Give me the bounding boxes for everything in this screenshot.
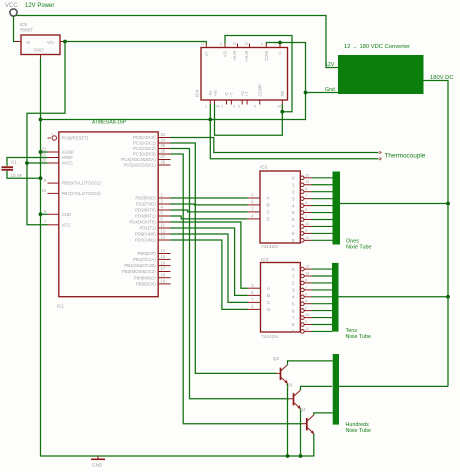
svg-text:PC5(ADC5/SCL): PC5(ADC5/SCL) bbox=[123, 163, 156, 168]
node 180V tens tap bbox=[446, 295, 450, 299]
svg-text:11: 11 bbox=[305, 326, 309, 331]
svg-text:Nixie Tube: Nixie Tube bbox=[346, 244, 371, 250]
wire 5V: VO down-left to AVCC and VCC pin7 bbox=[27, 42, 65, 225]
label 12V Power bbox=[25, 3, 54, 9]
wire VCC down to IC5 VI bbox=[14, 16, 16, 42]
svg-text:3: 3 bbox=[292, 288, 295, 294]
svg-text:2: 2 bbox=[305, 305, 307, 310]
wire C1 bottom to GND bbox=[7, 171, 41, 178]
node GND pin8 junction bbox=[39, 212, 43, 216]
label Thermocouple bbox=[385, 153, 426, 160]
svg-text:74141N: 74141N bbox=[261, 244, 278, 250]
wire GND rail to converter Gnd bbox=[41, 93, 306, 120]
svg-text:PB7(XTAL2/TOSC2): PB7(XTAL2/TOSC2) bbox=[62, 191, 102, 196]
wire Q3 collector to hundreds connector bbox=[301, 386, 333, 390]
svg-text:IC1: IC1 bbox=[57, 304, 65, 310]
node 180V ones tap bbox=[446, 202, 450, 206]
svg-text:7805T: 7805T bbox=[20, 28, 34, 34]
svg-text:28: 28 bbox=[161, 160, 166, 165]
svg-text:23: 23 bbox=[161, 132, 166, 137]
svg-text:-T: -T bbox=[229, 92, 234, 96]
node V- tap bbox=[278, 41, 282, 45]
svg-text:7: 7 bbox=[305, 193, 307, 198]
svg-text:9: 9 bbox=[292, 329, 295, 335]
svg-text:4: 4 bbox=[292, 203, 295, 209]
capacitor C1 bbox=[2, 160, 23, 178]
svg-text:18: 18 bbox=[161, 272, 166, 277]
svg-text:FB: FB bbox=[280, 91, 285, 97]
svg-text:D: D bbox=[267, 307, 271, 313]
svg-text:GND: GND bbox=[34, 48, 45, 53]
wire 5V: VO to IC4 V+ bbox=[65, 42, 206, 44]
svg-text:3: 3 bbox=[305, 298, 307, 303]
svg-text:+ALM: +ALM bbox=[244, 50, 249, 62]
wire FB to +IN bbox=[215, 104, 283, 135]
svg-text:0: 0 bbox=[292, 176, 295, 182]
svg-text:27: 27 bbox=[161, 154, 166, 159]
svg-text:6: 6 bbox=[305, 186, 307, 191]
wire V- up to gnd bbox=[279, 43, 281, 44]
node converter Gnd junction bbox=[304, 91, 308, 95]
svg-text:9: 9 bbox=[292, 238, 295, 244]
wire Q4 collector to hundreds connector bbox=[314, 413, 333, 415]
wire IC4 VO to FB loop bbox=[225, 36, 292, 112]
svg-text:PB5(SCK): PB5(SCK) bbox=[136, 282, 156, 287]
svg-text:19: 19 bbox=[161, 279, 166, 284]
wire PC3 to Q4 base bbox=[171, 154, 303, 424]
svg-text:PB2(SS&OC1B): PB2(SS&OC1B) bbox=[124, 263, 156, 268]
svg-text:PD4(XCK/T0): PD4(XCK/T0) bbox=[129, 220, 156, 225]
wire Q2 emitter to ground bus bbox=[287, 383, 289, 456]
wire PD1 to IC2 B bbox=[171, 203, 248, 206]
svg-text:17: 17 bbox=[161, 266, 166, 271]
svg-text:13: 13 bbox=[232, 42, 236, 46]
svg-text:IC2: IC2 bbox=[260, 165, 268, 171]
svg-text:C: C bbox=[267, 300, 271, 306]
svg-text:PC4(ADC4&SDA): PC4(ADC4&SDA) bbox=[121, 157, 156, 162]
svg-text:PD3(INT1): PD3(INT1) bbox=[135, 214, 156, 219]
svg-text:11: 11 bbox=[161, 223, 166, 228]
svg-text:Q2: Q2 bbox=[273, 356, 280, 361]
svg-text:11: 11 bbox=[305, 235, 309, 240]
svg-text:8: 8 bbox=[292, 322, 295, 328]
svg-text:7: 7 bbox=[305, 284, 307, 289]
svg-text:PD2(INT0): PD2(INT0) bbox=[135, 208, 156, 213]
op-amp U IC4 AD595 thermocouple amplifier bbox=[195, 42, 288, 109]
svg-text:VO: VO bbox=[47, 40, 54, 45]
svg-text:15: 15 bbox=[305, 172, 309, 177]
node AVCC tap bbox=[25, 161, 29, 165]
svg-text:6: 6 bbox=[292, 217, 295, 223]
wire GND pin8 bbox=[41, 213, 48, 215]
svg-text:PC3(ADC3): PC3(ADC3) bbox=[133, 152, 156, 157]
svg-text:+T: +T bbox=[245, 91, 250, 96]
svg-text:25: 25 bbox=[161, 143, 166, 148]
wire tens anode to 180V rail bbox=[339, 296, 449, 298]
ground symbol GND bbox=[91, 456, 105, 468]
wire ones anode to 180V rail bbox=[340, 203, 448, 205]
thermocouple connector pins bbox=[379, 151, 382, 160]
svg-text:PD0(RXD): PD0(RXD) bbox=[135, 196, 156, 201]
svg-text:PC6(/RESET): PC6(/RESET) bbox=[62, 136, 89, 141]
svg-text:9: 9 bbox=[305, 228, 307, 233]
svg-text:Gnd: Gnd bbox=[325, 87, 335, 93]
svg-text:1: 1 bbox=[292, 274, 295, 280]
svg-text:20: 20 bbox=[41, 158, 46, 163]
BCD decoder IC3 74141N bbox=[248, 257, 312, 340]
svg-text:ATMEGA8-16P: ATMEGA8-16P bbox=[92, 120, 127, 126]
svg-text:1: 1 bbox=[292, 182, 295, 188]
svg-text:14: 14 bbox=[216, 104, 220, 108]
svg-text:7: 7 bbox=[292, 224, 295, 230]
svg-text:8: 8 bbox=[292, 231, 295, 237]
svg-text:IC4: IC4 bbox=[195, 89, 201, 97]
wire AGND bbox=[41, 151, 48, 153]
svg-text:10: 10 bbox=[41, 188, 46, 193]
IC5 7805T regulator bbox=[15, 22, 66, 59]
svg-text:2: 2 bbox=[221, 104, 223, 108]
wire AVCC bbox=[27, 162, 48, 164]
transistor Q2 bbox=[273, 356, 288, 384]
svg-text:13: 13 bbox=[161, 235, 166, 240]
wire PD4 to IC3 A bbox=[171, 222, 248, 288]
svg-text:PB6(XTAL1/TOSC1): PB6(XTAL1/TOSC1) bbox=[62, 181, 102, 186]
svg-text:COMP: COMP bbox=[257, 84, 262, 97]
svg-text:26: 26 bbox=[161, 149, 166, 154]
wire PD7 to IC3 D bbox=[171, 240, 248, 309]
svg-text:16: 16 bbox=[161, 260, 166, 265]
svg-text:Nixie Tube: Nixie Tube bbox=[346, 334, 371, 340]
wire 180V output rail bbox=[424, 81, 449, 387]
wire GND: IC5 GND down to bottom bus bbox=[41, 58, 314, 456]
svg-text:GND: GND bbox=[62, 212, 72, 217]
wire hundreds anode to 180V rail bbox=[339, 385, 448, 387]
svg-text:AREF: AREF bbox=[62, 155, 74, 160]
wire PD2 to IC2 C bbox=[171, 210, 248, 212]
svg-text:PD1(TXD): PD1(TXD) bbox=[136, 202, 156, 207]
svg-text:4: 4 bbox=[292, 295, 295, 301]
svg-text:PB4(MISO): PB4(MISO) bbox=[134, 275, 157, 280]
transistor Q4 bbox=[300, 407, 315, 434]
svg-text:VI: VI bbox=[26, 40, 30, 45]
svg-text:PC2(ADC2): PC2(ADC2) bbox=[133, 146, 156, 151]
svg-text:B: B bbox=[267, 293, 270, 299]
svg-text:5: 5 bbox=[238, 104, 240, 108]
svg-text:21: 21 bbox=[41, 152, 46, 157]
svg-text:0: 0 bbox=[292, 267, 295, 273]
svg-text:3: 3 bbox=[233, 104, 235, 108]
svg-text:PB1(OC1A): PB1(OC1A) bbox=[133, 257, 156, 262]
svg-text:VCC: VCC bbox=[5, 3, 18, 9]
wire PD0 to IC2 A bbox=[171, 197, 248, 199]
svg-text:Q4: Q4 bbox=[300, 407, 307, 412]
svg-text:PC1(ADC1): PC1(ADC1) bbox=[133, 141, 156, 146]
svg-text:9: 9 bbox=[305, 319, 307, 324]
svg-text:11: 11 bbox=[201, 42, 205, 46]
svg-text:9: 9 bbox=[254, 104, 256, 108]
svg-text:24: 24 bbox=[161, 138, 166, 143]
wire Q3 emitter to ground bus bbox=[300, 409, 302, 456]
wire AREF to C1 bbox=[7, 158, 48, 167]
svg-text:3: 3 bbox=[292, 196, 295, 202]
svg-text:8: 8 bbox=[220, 42, 222, 46]
BCD decoder IC2 74141N bbox=[248, 165, 312, 251]
svg-text:-ALM: -ALM bbox=[232, 50, 237, 61]
svg-text:PB0(ICP): PB0(ICP) bbox=[138, 251, 157, 256]
node C1 GND junction bbox=[39, 176, 43, 180]
svg-text:AGND: AGND bbox=[62, 150, 74, 155]
svg-text:2: 2 bbox=[292, 189, 295, 195]
svg-text:VCC: VCC bbox=[62, 222, 71, 227]
svg-text:AVCC: AVCC bbox=[62, 161, 74, 166]
connector hundreds nixie tube bbox=[333, 354, 371, 434]
connector tens nixie tube bbox=[332, 263, 371, 340]
svg-text:B: B bbox=[267, 203, 270, 209]
node AGND tap bbox=[39, 150, 43, 154]
svg-text:PD7(AIN1): PD7(AIN1) bbox=[135, 238, 156, 243]
svg-text:1: 1 bbox=[205, 104, 207, 108]
node Q3 emitter bus junction bbox=[299, 454, 303, 458]
svg-text:Q3: Q3 bbox=[286, 382, 293, 387]
transistor Q3 bbox=[286, 382, 301, 409]
wire PD5 to IC3 B bbox=[171, 228, 248, 295]
svg-text:12: 12 bbox=[244, 42, 248, 46]
wire PC0 to thermocouple upper bbox=[171, 138, 379, 153]
wire Q4 emitter to ground bus end bbox=[313, 434, 315, 456]
wire PC1 to Q2 base bbox=[171, 143, 277, 373]
svg-text:5: 5 bbox=[292, 301, 295, 307]
svg-text:12V Power: 12V Power bbox=[25, 3, 54, 9]
svg-text:V+: V+ bbox=[204, 50, 209, 56]
svg-text:12V: 12V bbox=[325, 62, 335, 68]
svg-text:15: 15 bbox=[305, 264, 309, 269]
svg-text:D: D bbox=[267, 217, 271, 223]
svg-text:C1: C1 bbox=[11, 160, 17, 165]
svg-text:4: 4 bbox=[261, 42, 263, 46]
wire VCC to 12V converter (top rail) bbox=[17, 16, 339, 68]
svg-text:10 nF: 10 nF bbox=[11, 173, 23, 178]
node Q2 emitter bus junction bbox=[286, 454, 290, 458]
node -IN gnd rail junction bbox=[208, 118, 212, 122]
svg-text:10: 10 bbox=[277, 104, 281, 108]
svg-text:PD6(AIN0): PD6(AIN0) bbox=[135, 232, 156, 237]
svg-text:PB3(MOSI&OC2): PB3(MOSI&OC2) bbox=[122, 269, 156, 274]
svg-text:Nixie Tube: Nixie Tube bbox=[346, 428, 371, 434]
svg-text:GND: GND bbox=[92, 463, 103, 468]
svg-text:15: 15 bbox=[161, 254, 166, 259]
12 to 180 VDC converter module bbox=[325, 44, 454, 94]
svg-text:+IN: +IN bbox=[213, 90, 218, 97]
wire PD3 to IC2 D bbox=[171, 216, 248, 219]
wire Q2 collector to hundreds connector bbox=[288, 361, 333, 365]
svg-text:12 → 180 VDC Converter: 12 → 180 VDC Converter bbox=[344, 44, 410, 50]
svg-text:C: C bbox=[267, 210, 271, 216]
wire -IN down to thermocouple lower bbox=[210, 104, 378, 159]
svg-text:74141N: 74141N bbox=[261, 334, 278, 340]
svg-text:COM: COM bbox=[264, 51, 269, 61]
svg-text:2: 2 bbox=[305, 214, 307, 219]
node 5V at IC5 VO bbox=[63, 40, 67, 44]
wires IC3 outputs to tens tube connector bbox=[312, 269, 333, 331]
svg-text:PD5(T1): PD5(T1) bbox=[139, 226, 156, 231]
wires IC2 outputs to ones tube connector bbox=[312, 178, 333, 241]
svg-text:14: 14 bbox=[161, 248, 166, 253]
svg-text:12: 12 bbox=[161, 229, 166, 234]
svg-text:IC5: IC5 bbox=[20, 22, 28, 28]
wire PC2 to Q3 base bbox=[171, 149, 290, 399]
wire IC4 COM to gnd vertical bbox=[266, 43, 305, 93]
microcontroller IC1 ATMEGA8-16P bbox=[41, 120, 170, 310]
svg-text:6: 6 bbox=[305, 277, 307, 282]
connector ones nixie tube bbox=[333, 172, 372, 251]
svg-text:Thermocouple: Thermocouple bbox=[385, 153, 426, 160]
node GND rail tap bbox=[39, 118, 43, 122]
svg-text:22: 22 bbox=[41, 147, 46, 152]
svg-text:3: 3 bbox=[305, 207, 307, 212]
node FB junction bbox=[280, 110, 284, 114]
supply VCC bbox=[5, 3, 18, 16]
svg-text:PC0(ADC0): PC0(ADC0) bbox=[133, 135, 156, 140]
svg-text:2: 2 bbox=[292, 281, 295, 287]
svg-text:VO: VO bbox=[223, 50, 228, 57]
wire converter Gnd pin bbox=[306, 92, 339, 94]
svg-text:5: 5 bbox=[292, 210, 295, 216]
svg-text:V-: V- bbox=[278, 50, 283, 55]
svg-text:6: 6 bbox=[292, 308, 295, 314]
wire PD6 to IC3 C bbox=[171, 234, 248, 302]
svg-text:7: 7 bbox=[292, 315, 295, 321]
